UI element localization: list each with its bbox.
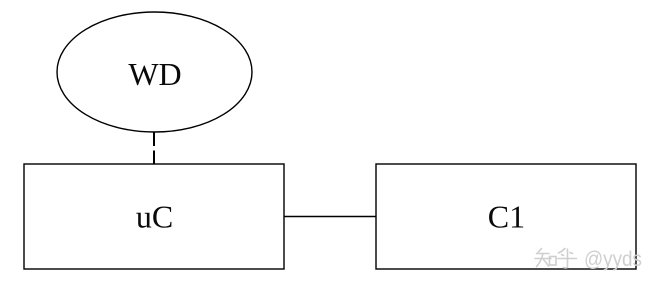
ellipse WD (57, 12, 252, 132)
wire uC to C1 (284, 216, 376, 218)
svg-text:WD: WD (128, 56, 181, 92)
svg-text:uC: uC (136, 199, 173, 235)
wire dashed ellipse to uC (153, 132, 155, 165)
svg-text:@yyds: @yyds (584, 248, 642, 271)
block uC (24, 164, 284, 269)
block C1 (376, 164, 636, 269)
svg-text:C1: C1 (488, 199, 525, 235)
watermark zhihu glyphs (535, 249, 577, 269)
